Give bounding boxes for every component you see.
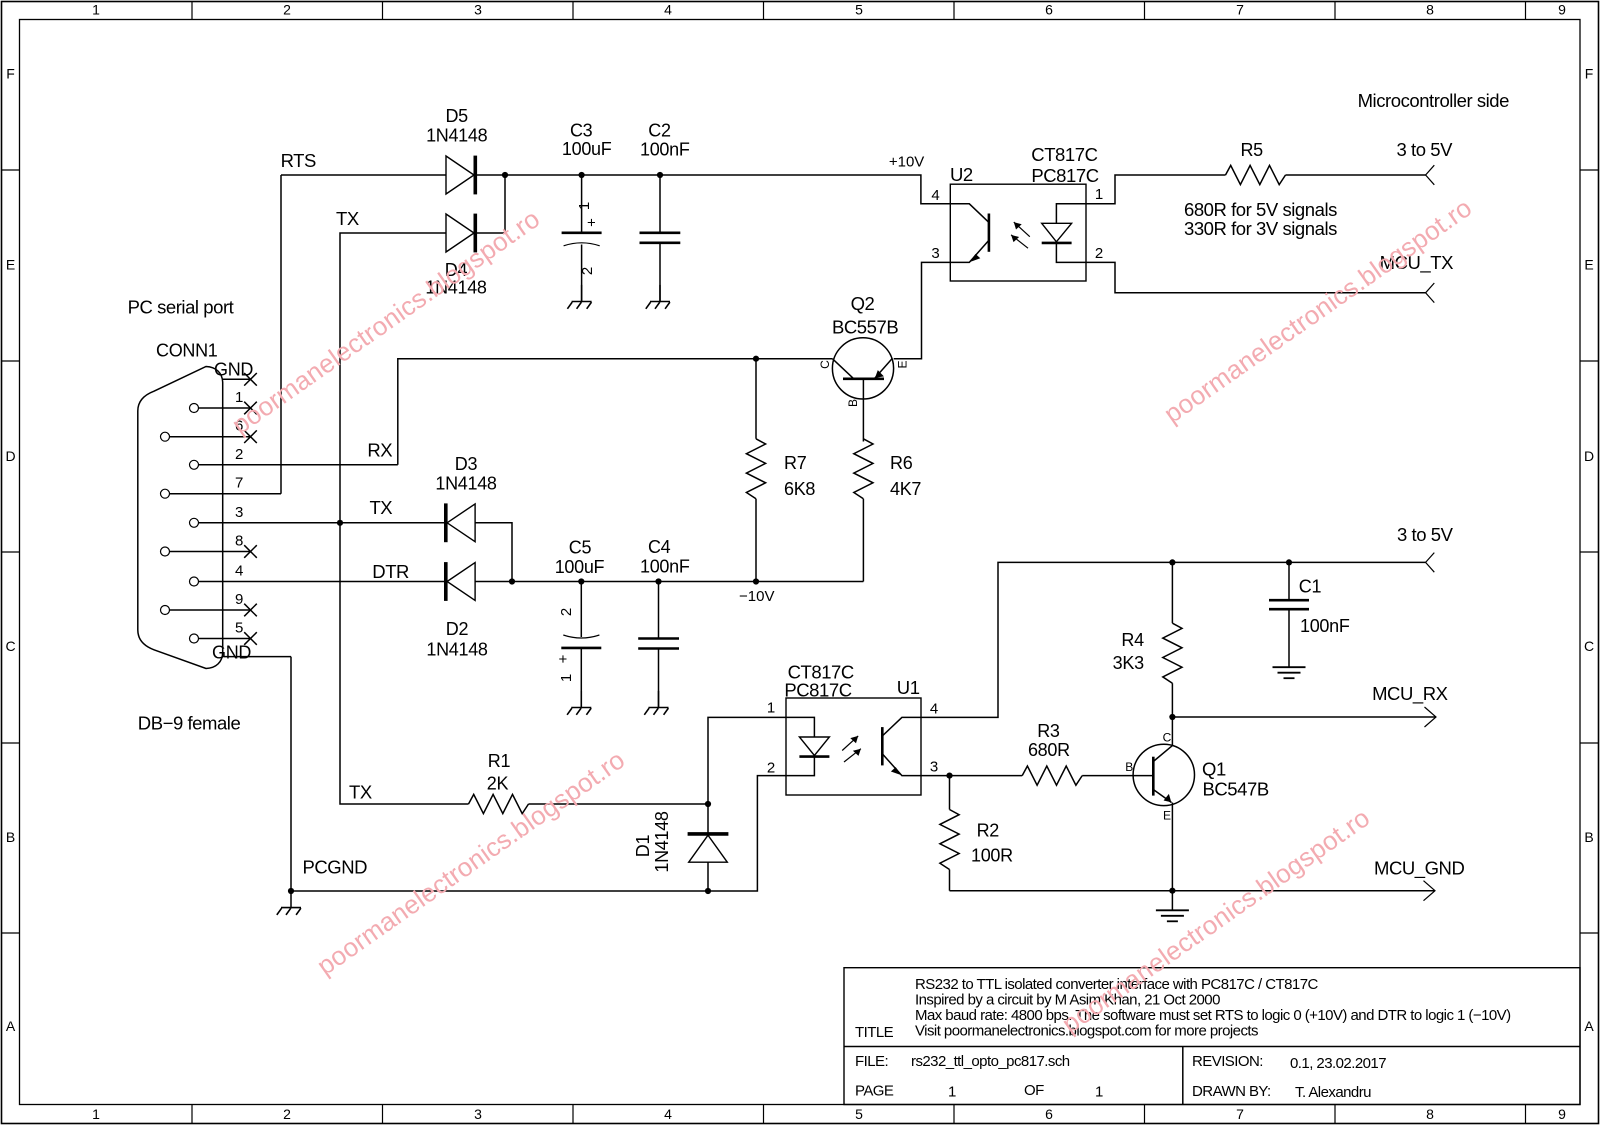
svg-text:+: + (555, 654, 572, 663)
svg-text:1N4148: 1N4148 (426, 639, 488, 659)
wire GND bottom to PCGND rail (291, 657, 786, 891)
svg-text:100nF: 100nF (1300, 616, 1350, 636)
junction R7 bottom (753, 578, 759, 584)
svg-text:8: 8 (235, 533, 243, 550)
svg-text:CT817C: CT817C (1031, 144, 1097, 165)
junction TX pin3 (337, 520, 343, 526)
svg-text:4: 4 (664, 1106, 672, 1122)
junction D1 bottom (705, 888, 711, 894)
svg-text:R1: R1 (488, 751, 511, 771)
svg-text:100R: 100R (971, 846, 1013, 866)
svg-text:PC817C: PC817C (1031, 165, 1098, 186)
wire DTR rail D2 to R6 (475, 581, 863, 583)
svg-text:8: 8 (1426, 1, 1434, 17)
svg-text:100nF: 100nF (640, 557, 690, 577)
svg-text:Max baud rate: 4800 bps. The s: Max baud rate: 4800 bps. The software mu… (915, 1007, 1511, 1024)
svg-text:9: 9 (235, 591, 243, 608)
terminal MCU_TX (1426, 283, 1435, 303)
connector CONN1 DB-9 female body (138, 367, 223, 669)
junction C5 top (578, 578, 584, 584)
junction C3 top (579, 172, 585, 178)
transistor Q2 (818, 338, 910, 442)
svg-text:R2: R2 (977, 820, 1000, 840)
svg-text:B: B (6, 829, 15, 845)
wire R1 to D1 junction (529, 803, 709, 805)
CONN1 pin 5 (190, 620, 257, 645)
svg-text:PCGND: PCGND (303, 857, 368, 878)
svg-text:4: 4 (664, 1, 672, 17)
svg-text:E: E (896, 360, 910, 368)
svg-text:Q1: Q1 (1202, 759, 1226, 780)
svg-text:C2: C2 (648, 121, 671, 141)
svg-text:TX: TX (349, 782, 372, 803)
wire TX to D4 (340, 233, 446, 523)
svg-text:C: C (1584, 638, 1594, 654)
junction D5/D4 (502, 172, 508, 178)
diode D5 (446, 156, 475, 195)
arrow MCU_RX (1425, 707, 1437, 727)
wire U1 pin3 to R3 (921, 775, 1022, 777)
wire D4 up to junction (477, 175, 505, 233)
capacitor C2 (640, 175, 681, 301)
CONN1 pin GND top (214, 360, 257, 386)
svg-text:DTR: DTR (372, 561, 409, 582)
svg-text:3 to 5V: 3 to 5V (1397, 139, 1454, 160)
svg-text:D: D (1584, 448, 1594, 464)
wire RTS horizontal to D5 (281, 174, 446, 176)
svg-text:B: B (846, 399, 860, 407)
svg-text:T. Alexandru: T. Alexandru (1295, 1084, 1371, 1101)
svg-text:C: C (1163, 731, 1172, 745)
svg-text:C4: C4 (648, 537, 671, 557)
svg-text:7: 7 (1236, 1, 1244, 17)
svg-text:rs232_ttl_opto_pc817.sch: rs232_ttl_opto_pc817.sch (911, 1053, 1070, 1070)
svg-text:D: D (5, 448, 15, 464)
svg-text:−10V: −10V (739, 588, 774, 605)
junction D3/DTR (509, 578, 515, 584)
wire RTS vertical from pin 7 (280, 175, 282, 494)
CONN1 pin GND bottom (212, 643, 291, 663)
wire Q1 emitter to MCU_GND rail (1171, 803, 1173, 891)
svg-text:REVISION:: REVISION: (1192, 1053, 1263, 1070)
svg-text:2: 2 (1095, 245, 1103, 262)
ground C3 (567, 285, 591, 309)
wire U2 pin2 to MCU_TX terminal (1086, 262, 1426, 292)
wire TX vertical to R1 (340, 523, 469, 804)
svg-text:MCU_GND: MCU_GND (1374, 858, 1464, 880)
junction D1 top (705, 801, 711, 807)
svg-text:8: 8 (1426, 1106, 1434, 1122)
svg-text:1N4148: 1N4148 (652, 811, 672, 873)
svg-text:1: 1 (1095, 186, 1103, 203)
svg-text:C5: C5 (569, 538, 592, 558)
svg-text:OF: OF (1024, 1082, 1044, 1099)
svg-text:E: E (1584, 257, 1593, 273)
svg-text:DRAWN BY:: DRAWN BY: (1192, 1083, 1271, 1100)
wire U2 pin1 to R5 (1086, 175, 1226, 204)
wire Q1 collector (1171, 717, 1173, 746)
svg-text:6: 6 (1045, 1106, 1053, 1122)
wire U1 pin1 riser (708, 717, 786, 804)
svg-text:F: F (1585, 66, 1594, 82)
junction C4 top (655, 578, 661, 584)
ground PCGND (277, 891, 301, 915)
svg-text:0.1, 23.02.2017: 0.1, 23.02.2017 (1290, 1055, 1386, 1072)
title block (844, 968, 1580, 1105)
svg-text:Microcontroller side: Microcontroller side (1358, 90, 1510, 111)
svg-text:330R for 3V signals: 330R for 3V signals (1184, 218, 1337, 239)
resistor R4 (1163, 562, 1182, 717)
terminal 3 to 5V (mid) (1426, 553, 1435, 573)
svg-text:+: + (584, 218, 601, 227)
wire U2 pin3 to Q2 emitter (894, 262, 951, 358)
svg-text:E: E (1163, 808, 1171, 822)
wire D5 to +10V rail (477, 174, 505, 176)
wire collector rail from RX riser to Q2 (398, 359, 833, 465)
svg-text:RX: RX (367, 440, 392, 461)
svg-text:1N4148: 1N4148 (426, 125, 488, 145)
resistor R1 (469, 794, 529, 813)
svg-text:DB−9 female: DB−9 female (138, 713, 241, 734)
wire MCU_GND (950, 890, 1436, 892)
svg-text:R6: R6 (890, 453, 913, 473)
svg-text:MCU_RX: MCU_RX (1372, 683, 1448, 705)
junction R7 top (753, 356, 759, 362)
svg-text:U1: U1 (897, 677, 920, 698)
svg-text:GND: GND (212, 643, 251, 663)
svg-text:2: 2 (767, 760, 775, 777)
junction Q1 emitter ground (1169, 888, 1175, 894)
CONN1 pin 6 (161, 418, 257, 443)
svg-text:100uF: 100uF (555, 557, 605, 577)
junction R4 top (1169, 559, 1175, 565)
svg-text:D2: D2 (446, 619, 469, 639)
svg-text:2: 2 (283, 1106, 291, 1122)
ground MCU_GND (1156, 891, 1189, 922)
svg-text:4: 4 (235, 563, 243, 580)
svg-text:TITLE: TITLE (855, 1024, 894, 1041)
svg-text:+10V: +10V (889, 154, 924, 171)
svg-text:A: A (6, 1018, 16, 1034)
svg-text:TX: TX (336, 208, 359, 229)
svg-text:100uF: 100uF (562, 139, 612, 159)
svg-text:2: 2 (558, 608, 575, 616)
svg-text:3: 3 (474, 1106, 482, 1122)
svg-text:R5: R5 (1240, 140, 1263, 160)
ground C5 (567, 691, 591, 715)
svg-text:4: 4 (930, 701, 938, 718)
CONN1 pin 9 (161, 591, 257, 616)
CONN1 pin 7 (161, 475, 282, 499)
svg-text:6: 6 (1045, 1, 1053, 17)
svg-text:6K8: 6K8 (784, 479, 815, 499)
svg-text:PC serial port: PC serial port (128, 296, 234, 317)
svg-text:3: 3 (235, 504, 243, 521)
junction C2 top (657, 172, 663, 178)
CONN1 pin 3 (190, 504, 446, 528)
svg-text:2K: 2K (487, 774, 509, 794)
ground C2 (646, 285, 670, 309)
svg-text:3K3: 3K3 (1113, 653, 1144, 673)
svg-text:5: 5 (855, 1106, 863, 1122)
svg-text:D1: D1 (633, 835, 653, 858)
wire D3 to DTR rail (475, 523, 512, 582)
junction C1 top (1286, 559, 1292, 565)
resistor R5 (1226, 165, 1286, 184)
svg-text:U2: U2 (950, 164, 973, 185)
capacitor C3 (electrolytic) (562, 175, 602, 301)
svg-text:5: 5 (235, 620, 243, 637)
svg-text:BC547B: BC547B (1203, 779, 1269, 800)
svg-text:D5: D5 (445, 106, 468, 126)
svg-text:B: B (1584, 829, 1593, 845)
wire U1 pin4 to 3to5V rail (921, 562, 1426, 717)
svg-text:9: 9 (1558, 1, 1566, 17)
svg-text:1: 1 (92, 1106, 100, 1122)
svg-text:PAGE: PAGE (855, 1083, 894, 1100)
capacitor C5 (electrolytic) (555, 582, 601, 708)
resistor R3 (1022, 766, 1082, 785)
svg-text:1: 1 (948, 1084, 956, 1101)
svg-text:3 to 5V: 3 to 5V (1397, 524, 1454, 545)
svg-text:1: 1 (92, 1, 100, 17)
CONN1 pin 4 (190, 563, 446, 587)
svg-text:R7: R7 (784, 453, 807, 473)
svg-text:F: F (6, 66, 15, 82)
svg-text:3: 3 (931, 245, 939, 262)
wire R5 to 3 to 5V terminal (1286, 174, 1426, 176)
svg-text:7: 7 (235, 475, 243, 492)
resistor R6 (854, 439, 873, 582)
svg-text:RTS: RTS (281, 150, 316, 171)
svg-text:B: B (1125, 760, 1133, 774)
svg-text:C1: C1 (1299, 577, 1322, 597)
svg-text:PC817C: PC817C (784, 679, 851, 700)
ground C4 (644, 691, 668, 715)
diode D1 (688, 804, 729, 891)
svg-text:3: 3 (474, 1, 482, 17)
CONN1 pin 1 (190, 389, 257, 414)
svg-text:2: 2 (235, 446, 243, 463)
svg-text:2: 2 (579, 267, 596, 275)
svg-text:BC557B: BC557B (832, 317, 898, 338)
svg-text:4K7: 4K7 (890, 479, 921, 499)
svg-text:2: 2 (283, 1, 291, 17)
resistor R7 (746, 359, 765, 582)
svg-text:1N4148: 1N4148 (435, 473, 497, 493)
svg-text:R3: R3 (1037, 721, 1060, 741)
svg-text:5: 5 (855, 1, 863, 17)
svg-text:FILE:: FILE: (855, 1053, 888, 1070)
svg-text:C: C (818, 360, 832, 369)
junction MCU_RX (1169, 714, 1175, 720)
svg-text:7: 7 (1236, 1106, 1244, 1122)
resistor R2 (940, 776, 959, 891)
ground C1 (1273, 667, 1306, 678)
terminal 3 to 5V (top) (1426, 165, 1435, 185)
diode D3 (446, 503, 475, 542)
svg-text:D3: D3 (455, 454, 478, 474)
svg-text:100nF: 100nF (640, 140, 690, 160)
svg-text:1: 1 (576, 202, 593, 210)
svg-text:A: A (1584, 1018, 1594, 1034)
svg-text:1: 1 (767, 700, 775, 717)
optocoupler U2 (950, 184, 1086, 281)
svg-text:E: E (6, 257, 15, 273)
svg-text:1: 1 (1095, 1084, 1103, 1101)
optocoupler U1 (786, 698, 921, 795)
wire R3 to Q1 base (1082, 775, 1153, 777)
svg-text:CONN1: CONN1 (156, 341, 218, 361)
svg-text:1: 1 (558, 674, 575, 682)
svg-text:680R: 680R (1028, 740, 1070, 760)
svg-text:R4: R4 (1121, 630, 1144, 650)
wire MCU_RX (1172, 716, 1436, 718)
svg-text:4: 4 (931, 187, 939, 204)
CONN1 pin 8 (161, 533, 257, 558)
svg-text:3: 3 (930, 759, 938, 776)
diode D4 (446, 214, 475, 253)
CONN1 pin 2 (190, 446, 398, 470)
capacitor C4 (638, 582, 679, 708)
diode D2 (446, 562, 475, 601)
junction PCGND ground (288, 888, 294, 894)
svg-text:C3: C3 (570, 121, 593, 141)
wire +10V rail (505, 175, 950, 204)
svg-text:C: C (5, 638, 15, 654)
svg-text:TX: TX (369, 497, 392, 518)
capacitor C1 (1269, 562, 1309, 667)
arrow MCU_GND (1424, 881, 1436, 901)
svg-text:Q2: Q2 (851, 293, 875, 314)
junction R2 top (946, 773, 952, 779)
svg-text:9: 9 (1558, 1106, 1566, 1122)
transistor Q1 (1125, 731, 1194, 823)
